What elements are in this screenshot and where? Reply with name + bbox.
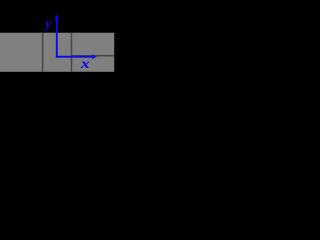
svg-text:x: x — [80, 57, 90, 72]
section line B (vertical cut at x=71.3) — [71, 33, 73, 72]
x-axis arrowhead — [92, 54, 97, 59]
y-axis arrowhead — [54, 14, 59, 19]
x-axis shaft — [56, 56, 93, 58]
bar (gray beam) — [0, 33, 114, 72]
svg-text:y: y — [43, 17, 52, 32]
section line A (vertical cut at x=42.4) — [42, 33, 44, 72]
mid line (horizontal cut right segment) — [72, 55, 115, 57]
background — [0, 0, 154, 114]
y-axis shaft — [56, 19, 58, 58]
